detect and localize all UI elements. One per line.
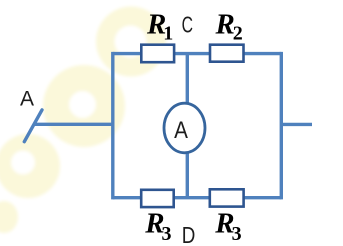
resistor R1 xyxy=(141,45,174,63)
wire: left input stub xyxy=(35,123,113,126)
wire: right vertical xyxy=(280,52,283,200)
svg-text:3: 3 xyxy=(232,223,242,245)
watermark ring lower xyxy=(0,134,60,198)
resistor R2 xyxy=(210,45,244,62)
switch blade at A xyxy=(24,110,42,142)
wire: bottom side D-row xyxy=(113,196,281,199)
svg-text:D: D xyxy=(182,222,196,246)
svg-text:R: R xyxy=(215,9,235,41)
svg-text:1: 1 xyxy=(163,23,173,45)
watermark ring middle xyxy=(43,65,125,147)
watermark ring top xyxy=(96,7,166,77)
ammeter A1 body xyxy=(164,103,205,153)
wire: right output stub xyxy=(281,123,312,126)
wire: top side C-row xyxy=(113,52,281,55)
resistor R3 bottom-left xyxy=(141,190,174,207)
wire: left vertical xyxy=(111,52,114,200)
svg-text:2: 2 xyxy=(233,23,243,45)
svg-text:A: A xyxy=(20,87,34,110)
resistor R3 bottom-right xyxy=(210,189,244,206)
wire: middle vertical through ammeter xyxy=(186,54,189,198)
watermark petal bottom-left xyxy=(0,201,18,233)
svg-text:A: A xyxy=(174,117,188,144)
svg-text:C: C xyxy=(182,12,193,38)
svg-text:3: 3 xyxy=(162,223,172,245)
